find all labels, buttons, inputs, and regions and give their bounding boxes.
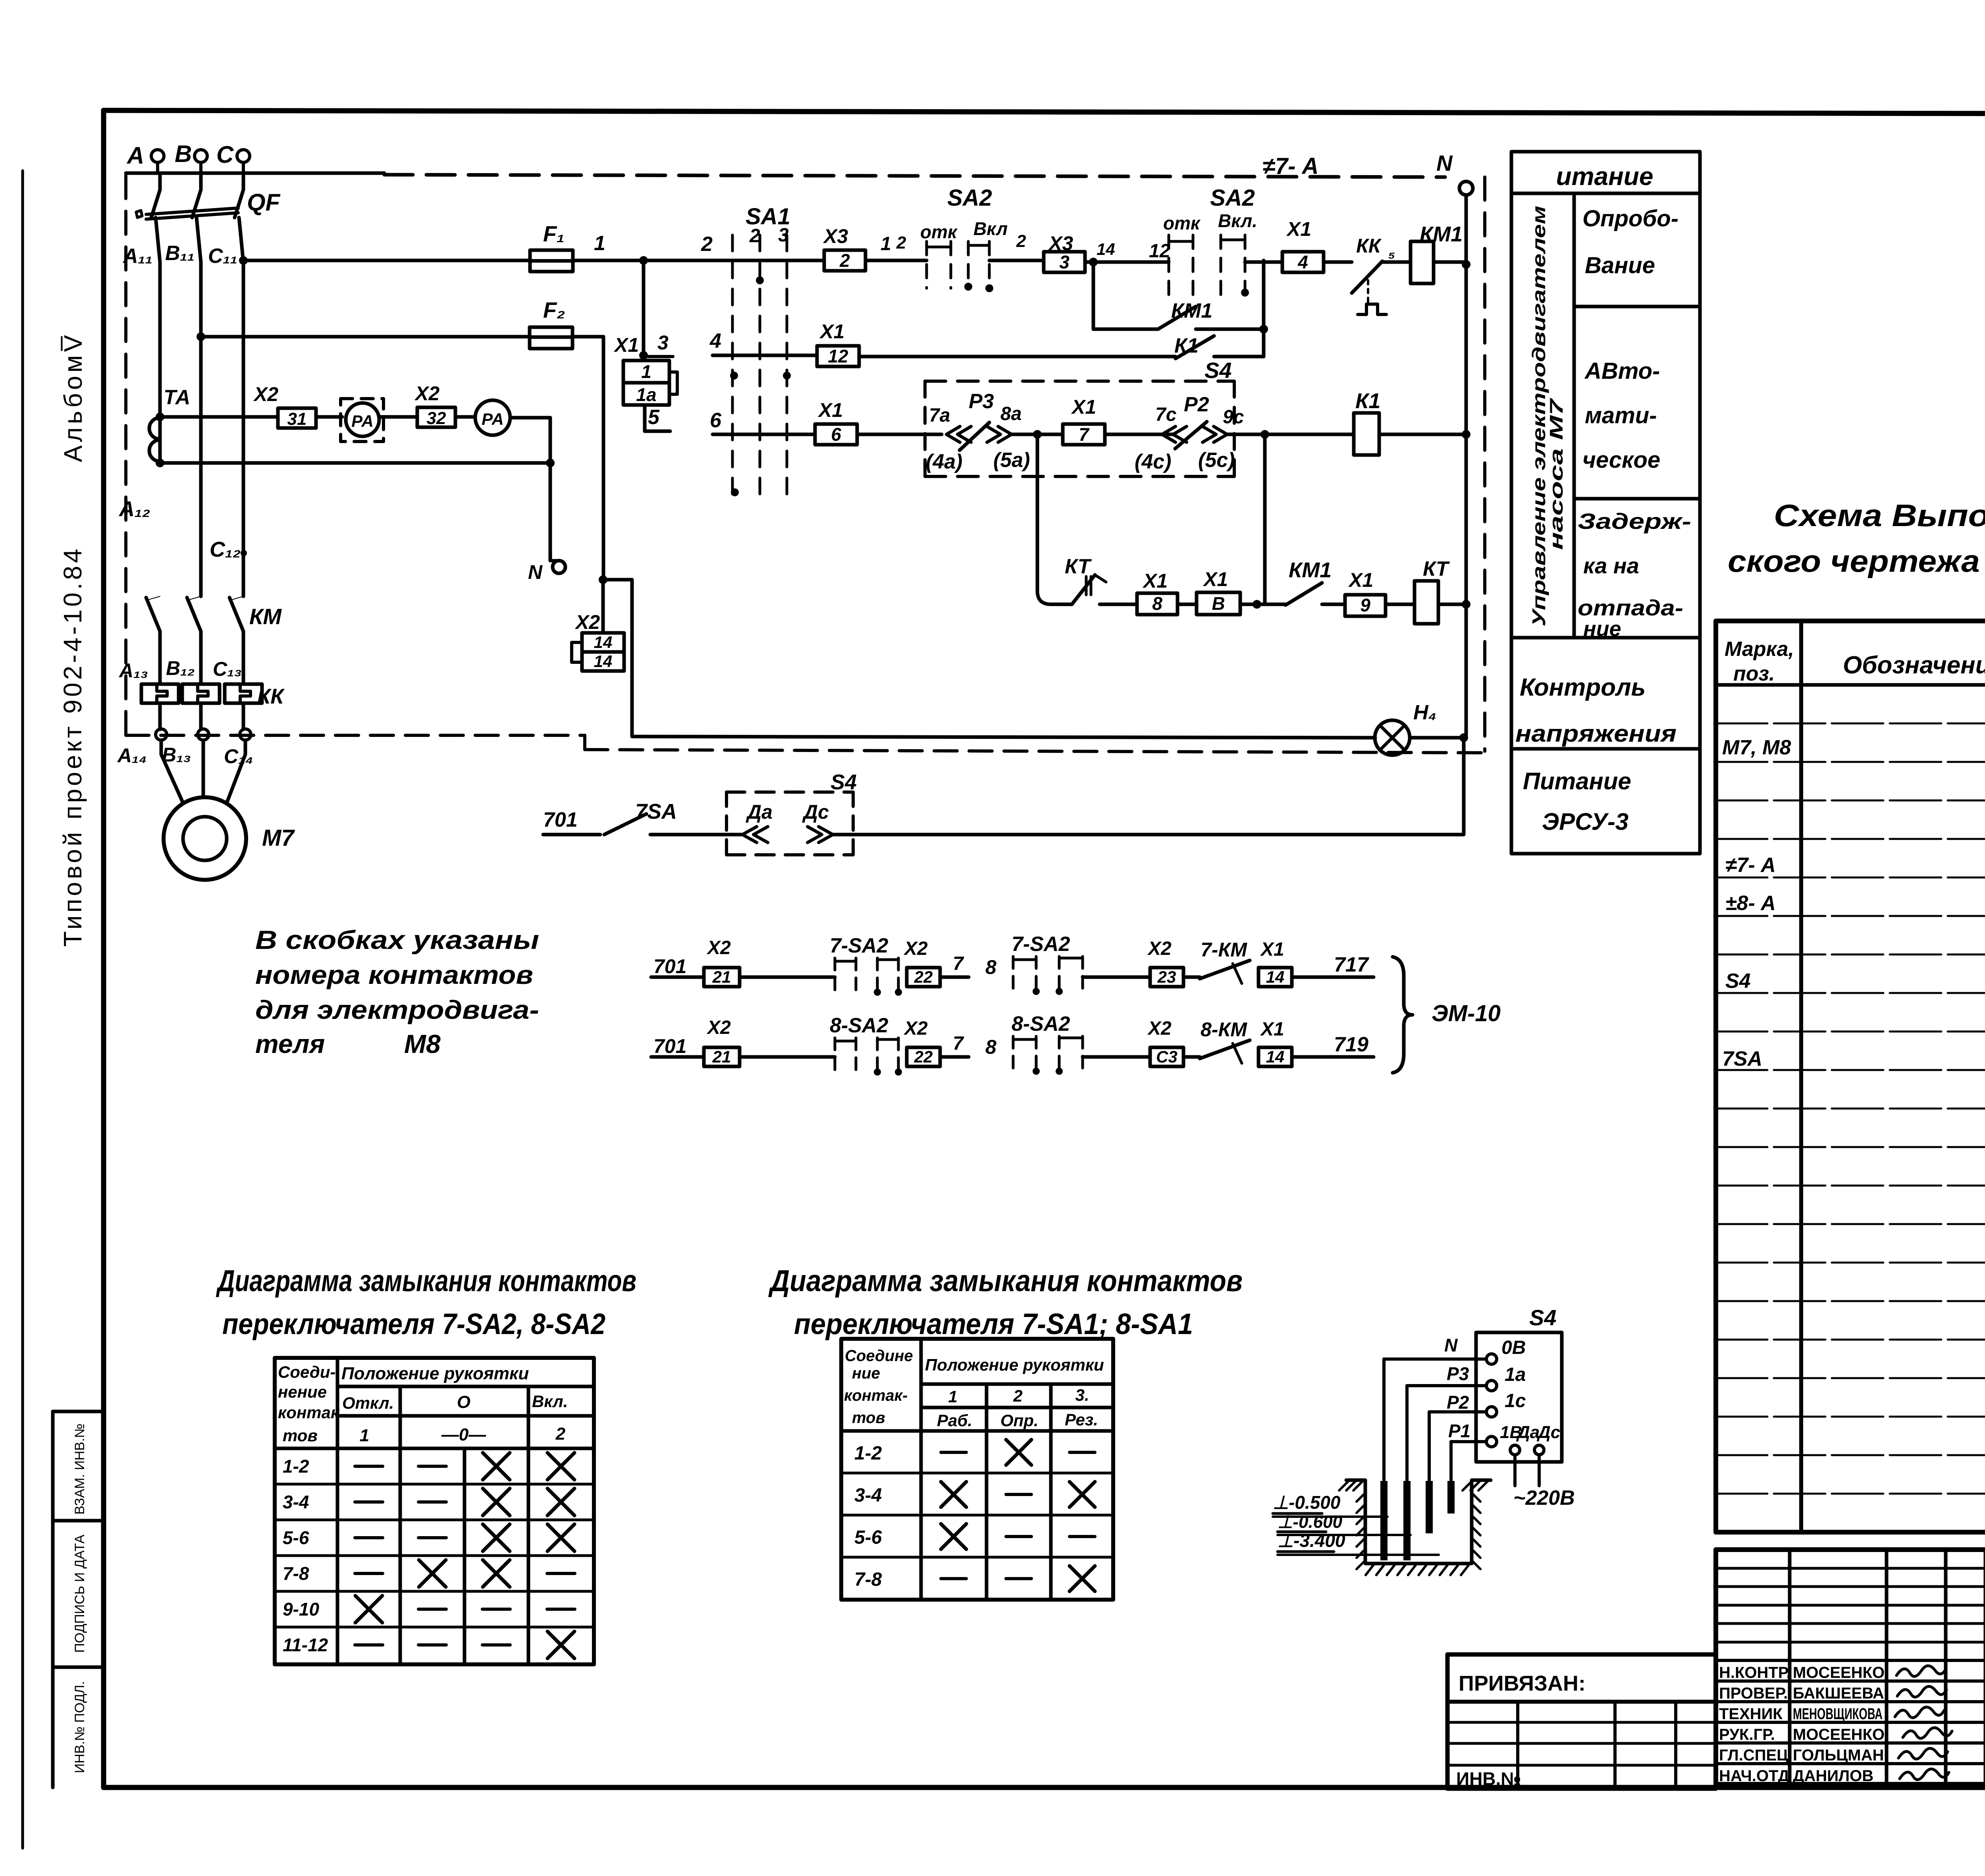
svg-text:(5с): (5с) bbox=[1198, 449, 1235, 472]
svg-text:X1: X1 bbox=[1260, 939, 1284, 960]
svg-text:переключателя 7-SA1; 8-SA1: переключателя 7-SA1; 8-SA1 bbox=[794, 1307, 1193, 1340]
function column box bbox=[1511, 152, 1700, 854]
svg-text:8-SA2: 8-SA2 bbox=[1012, 1012, 1070, 1035]
svg-text:S4: S4 bbox=[1725, 970, 1751, 993]
svg-text:1с: 1с bbox=[1505, 1390, 1526, 1411]
wire bbox=[379, 415, 417, 419]
svg-text:(4а): (4а) bbox=[926, 450, 962, 473]
wire X1:1a to 5 bbox=[643, 405, 647, 431]
svg-text:Положение рукоятки: Положение рукоятки bbox=[925, 1355, 1104, 1374]
svg-text:КМ1: КМ1 bbox=[1289, 558, 1332, 582]
svg-text:Диаграмма замыкания контактов: Диаграмма замыкания контактов bbox=[216, 1264, 636, 1298]
svg-text:4: 4 bbox=[709, 330, 721, 353]
node junction B11-F2 bbox=[197, 332, 205, 341]
svg-text:14: 14 bbox=[594, 633, 613, 652]
bus dashed to cabinet (net ±7-A) bbox=[384, 175, 1445, 177]
svg-text:ПОДПИСЬ И ДАТА: ПОДПИСЬ И ДАТА bbox=[72, 1535, 87, 1653]
wire bbox=[740, 1055, 835, 1059]
svg-text:7: 7 bbox=[953, 1033, 964, 1054]
lamp circuit wire bbox=[632, 737, 1375, 738]
svg-text:2: 2 bbox=[1013, 1386, 1022, 1405]
svg-text:теля: теля bbox=[255, 1029, 325, 1059]
svg-text:14: 14 bbox=[1266, 968, 1285, 986]
svg-text:7-8: 7-8 bbox=[283, 1563, 309, 1584]
svg-text:9: 9 bbox=[1360, 595, 1370, 615]
svg-text:1: 1 bbox=[881, 233, 891, 255]
svg-text:21: 21 bbox=[712, 968, 731, 986]
wire 7 8 bbox=[940, 1055, 969, 1059]
title block outer bbox=[1716, 1550, 1985, 1784]
svg-text:Н.КОНТР.: Н.КОНТР. bbox=[1719, 1664, 1791, 1681]
svg-text:1: 1 bbox=[594, 232, 605, 255]
svg-text:М7, М8: М7, М8 bbox=[1722, 736, 1791, 759]
svg-text:А₁₁: А₁₁ bbox=[122, 245, 152, 268]
svg-text:X2: X2 bbox=[1147, 938, 1172, 959]
wire and loop return bbox=[510, 416, 550, 420]
svg-text:РУК.ГР.: РУК.ГР. bbox=[1719, 1726, 1775, 1743]
svg-text:X2: X2 bbox=[903, 1018, 928, 1039]
svg-text:~220В: ~220В bbox=[1513, 1487, 1575, 1510]
svg-text:23: 23 bbox=[1157, 968, 1176, 986]
node after X3:3 bbox=[1089, 258, 1098, 266]
wire node1 down to X1 terminal bbox=[642, 260, 646, 361]
svg-text:X2: X2 bbox=[574, 611, 600, 633]
svg-text:А₁₃: А₁₃ bbox=[118, 659, 148, 682]
svg-text:ТА: ТА bbox=[164, 386, 190, 409]
svg-text:Питание: Питание bbox=[1523, 768, 1631, 794]
svg-text:1а: 1а bbox=[636, 384, 656, 405]
phase wire B11 bbox=[197, 218, 201, 262]
svg-text:—0—: —0— bbox=[441, 1425, 486, 1444]
svg-text:8-КМ: 8-КМ bbox=[1201, 1018, 1247, 1041]
svg-text:Вкл.: Вкл. bbox=[532, 1392, 568, 1411]
svg-text:(4с): (4с) bbox=[1135, 450, 1171, 473]
svg-text:3: 3 bbox=[1059, 252, 1070, 272]
svg-text:8а: 8а bbox=[1000, 403, 1021, 424]
svg-text:Типовой проект 902-4-10.84: Типовой проект 902-4-10.84 bbox=[58, 546, 87, 947]
svg-text:В скобках указаны: В скобках указаны bbox=[255, 925, 539, 954]
svg-text:9-10: 9-10 bbox=[283, 1599, 319, 1620]
svg-text:7а: 7а bbox=[929, 405, 950, 426]
svg-text:₅: ₅ bbox=[1388, 241, 1395, 262]
svg-text:Схема Выполнена на основании з: Схема Выполнена на основании завод- bbox=[1774, 498, 1985, 533]
svg-text:итание: итание bbox=[1556, 162, 1654, 191]
svg-text:X3: X3 bbox=[823, 225, 848, 247]
svg-text:мати-: мати- bbox=[1585, 403, 1657, 428]
svg-text:Положение рукоятки: Положение рукоятки bbox=[341, 1364, 529, 1383]
svg-text:Вкл: Вкл bbox=[973, 218, 1008, 239]
svg-text:8: 8 bbox=[985, 1036, 996, 1058]
svg-text:Р2: Р2 bbox=[1184, 393, 1209, 416]
svg-text:X2: X2 bbox=[706, 1017, 731, 1038]
svg-text:1-2: 1-2 bbox=[283, 1456, 309, 1477]
svg-text:МОСЕЕНКО: МОСЕЕНКО bbox=[1793, 1726, 1885, 1743]
svg-text:22: 22 bbox=[914, 968, 933, 986]
svg-text:7SA: 7SA bbox=[1722, 1047, 1762, 1070]
svg-text:F₂: F₂ bbox=[543, 297, 565, 322]
svg-text:9с: 9с bbox=[1223, 407, 1244, 428]
svg-text:3.: 3. bbox=[1075, 1386, 1089, 1404]
svg-text:ТЕХНИК: ТЕХНИК bbox=[1719, 1705, 1783, 1723]
specification table bbox=[1716, 621, 1985, 1532]
svg-text:Раб.: Раб. bbox=[937, 1411, 972, 1430]
cabinet right dashed border bbox=[1483, 177, 1486, 751]
svg-text:отпада-: отпада- bbox=[1578, 595, 1683, 620]
svg-text:Да: Да bbox=[1516, 1423, 1540, 1442]
svg-text:1-2: 1-2 bbox=[854, 1443, 882, 1464]
svg-text:12: 12 bbox=[828, 346, 848, 366]
svg-text:КК: КК bbox=[1356, 235, 1382, 257]
svg-text:С₁₂: С₁₂ bbox=[210, 538, 241, 561]
svg-text:5: 5 bbox=[648, 406, 660, 429]
svg-text:14: 14 bbox=[1266, 1047, 1285, 1066]
svg-text:11-12: 11-12 bbox=[283, 1635, 328, 1655]
phase wire C11 bbox=[239, 218, 243, 262]
svg-text:С₁₄: С₁₄ bbox=[224, 745, 253, 767]
svg-text:701: 701 bbox=[653, 1035, 686, 1057]
svg-text:АВто-: АВто- bbox=[1584, 358, 1660, 384]
svg-text:ского чертежа ИЖМК. 656.362.0: ского чертежа ИЖМК. 656.362.001- 20..12В… bbox=[1728, 544, 1985, 578]
svg-text:X1: X1 bbox=[1348, 569, 1373, 591]
svg-text:2: 2 bbox=[839, 250, 850, 271]
svg-text:ИНВ.№ ПОДЛ.: ИНВ.№ ПОДЛ. bbox=[72, 1681, 87, 1773]
svg-text:7: 7 bbox=[1079, 424, 1090, 445]
contactor KM main contacts bbox=[146, 596, 160, 600]
wire 7 8 bbox=[940, 976, 969, 979]
wire to fuse F1 bbox=[243, 259, 530, 262]
svg-text:Контроль: Контроль bbox=[1520, 674, 1646, 701]
diagram table 1 bbox=[275, 1358, 594, 1664]
svg-text:1а: 1а bbox=[1505, 1364, 1526, 1385]
svg-text:Р2: Р2 bbox=[1447, 1392, 1469, 1413]
ammeter PA bbox=[475, 400, 510, 435]
thermal relay KK heaters bbox=[141, 684, 179, 703]
svg-text:X1: X1 bbox=[1260, 1019, 1284, 1040]
svg-text:31: 31 bbox=[287, 409, 307, 429]
svg-text:РА: РА bbox=[482, 410, 504, 428]
cabinet left dashed border bbox=[124, 175, 127, 735]
svg-text:Опр.: Опр. bbox=[1000, 1411, 1039, 1430]
svg-text:1: 1 bbox=[360, 1426, 369, 1445]
diagram table 2 bbox=[841, 1339, 1113, 1600]
ammeter PA reserve (dashed) bbox=[341, 399, 384, 442]
svg-text:719: 719 bbox=[1334, 1033, 1368, 1056]
wire bbox=[316, 415, 342, 419]
svg-text:X2: X2 bbox=[1147, 1018, 1172, 1039]
svg-text:N: N bbox=[528, 561, 543, 583]
svg-text:7-SA2: 7-SA2 bbox=[1012, 933, 1070, 956]
svg-text:поз.: поз. bbox=[1733, 662, 1775, 685]
svg-text:К1: К1 bbox=[1355, 389, 1380, 413]
sensor terminals bbox=[1486, 1354, 1497, 1364]
svg-text:3-4: 3-4 bbox=[854, 1485, 882, 1506]
inner vertical bbox=[1573, 193, 1576, 638]
svg-text:МОСЕЕНКО: МОСЕЕНКО bbox=[1793, 1664, 1885, 1681]
ammeter loop bottom wire bbox=[160, 461, 550, 465]
svg-text:А₁₂: А₁₂ bbox=[118, 497, 150, 521]
svg-text:ПРОВЕР.: ПРОВЕР. bbox=[1719, 1685, 1788, 1702]
svg-text:32: 32 bbox=[427, 409, 446, 428]
svg-text:7-8: 7-8 bbox=[854, 1569, 882, 1590]
svg-text:В: В bbox=[1212, 593, 1225, 614]
margin label boxes bbox=[51, 1411, 55, 1787]
svg-text:X1: X1 bbox=[1071, 396, 1096, 418]
svg-text:701: 701 bbox=[543, 808, 578, 831]
svg-text:2: 2 bbox=[701, 233, 713, 256]
electrodes bbox=[1380, 1481, 1388, 1560]
svg-text:А₁₄: А₁₄ bbox=[117, 744, 147, 767]
svg-text:7SA: 7SA bbox=[635, 800, 677, 823]
svg-text:QF: QF bbox=[247, 189, 281, 216]
svg-text:Дс: Дс bbox=[1536, 1423, 1560, 1442]
svg-text:Н₄: Н₄ bbox=[1413, 701, 1436, 724]
svg-text:БАКШЕЕВА: БАКШЕЕВА bbox=[1793, 1685, 1884, 1702]
svg-text:4: 4 bbox=[1297, 252, 1308, 272]
svg-text:SA2: SA2 bbox=[1210, 185, 1255, 211]
title block left part grid bbox=[1788, 1550, 1792, 1784]
svg-text:⊥-0.600: ⊥-0.600 bbox=[1278, 1512, 1343, 1532]
svg-text:М8: М8 bbox=[404, 1029, 441, 1059]
svg-text:7-КМ: 7-КМ bbox=[1201, 939, 1247, 961]
svg-text:ВЗАМ. ИНВ.№: ВЗАМ. ИНВ.№ bbox=[72, 1423, 87, 1515]
svg-text:2: 2 bbox=[1016, 231, 1026, 251]
terminals to motor bbox=[156, 729, 167, 740]
svg-text:НАЧ.ОТД: НАЧ.ОТД bbox=[1719, 1767, 1789, 1785]
svg-text:АльбомV̅: АльбомV̅ bbox=[59, 332, 87, 462]
wire bbox=[989, 259, 1044, 262]
svg-text:22: 22 bbox=[914, 1047, 933, 1066]
svg-text:N: N bbox=[1444, 1335, 1458, 1355]
svg-text:⊥-0.500: ⊥-0.500 bbox=[1273, 1492, 1341, 1513]
header Питание bbox=[1511, 192, 1700, 195]
privyazan table bbox=[1447, 1654, 1716, 1789]
svg-text:X2: X2 bbox=[414, 382, 439, 405]
svg-text:Обозначение: Обозначение bbox=[1843, 652, 1985, 679]
svg-text:тов: тов bbox=[283, 1426, 318, 1445]
svg-text:≠7- А: ≠7- А bbox=[1262, 153, 1318, 179]
svg-text:X1: X1 bbox=[817, 399, 843, 421]
svg-text:Рез.: Рез. bbox=[1065, 1410, 1098, 1429]
svg-text:Марка,: Марка, bbox=[1725, 638, 1794, 661]
svg-text:X2: X2 bbox=[903, 938, 928, 959]
svg-text:Диаграмма замыкания контактов: Диаграмма замыкания контактов bbox=[768, 1264, 1243, 1298]
bus line solid part bbox=[126, 172, 384, 175]
svg-text:Р3: Р3 bbox=[969, 390, 994, 413]
svg-text:X1: X1 bbox=[1203, 568, 1228, 590]
svg-text:С3: С3 bbox=[1156, 1047, 1178, 1066]
svg-text:X1: X1 bbox=[1286, 218, 1311, 240]
wire down to sensor line bbox=[1462, 738, 1466, 834]
svg-text:контак-: контак- bbox=[844, 1387, 908, 1404]
phase wire A11 bbox=[156, 218, 160, 262]
svg-text:КТ: КТ bbox=[1065, 555, 1092, 578]
svg-text:ДАНИЛОВ: ДАНИЛОВ bbox=[1793, 1767, 1873, 1785]
svg-text:отк: отк bbox=[1163, 213, 1201, 233]
svg-text:8: 8 bbox=[1152, 593, 1162, 614]
svg-text:Вание: Вание bbox=[1585, 253, 1655, 278]
svg-text:Соедине: Соедине bbox=[845, 1347, 913, 1365]
svg-text:1: 1 bbox=[641, 361, 651, 382]
svg-text:напряжения: напряжения bbox=[1515, 720, 1677, 747]
motor M7 bbox=[164, 797, 246, 880]
svg-text:12: 12 bbox=[1149, 241, 1170, 262]
node 1 junction bbox=[639, 256, 648, 265]
ammeter loop top wire bbox=[156, 413, 164, 421]
svg-text:С₁₃: С₁₃ bbox=[213, 658, 242, 680]
page frame bbox=[104, 110, 1985, 114]
svg-text:Дс: Дс bbox=[802, 801, 829, 823]
wire bbox=[1083, 1055, 1150, 1059]
svg-text:РА: РА bbox=[351, 412, 374, 430]
svg-text:X1: X1 bbox=[819, 320, 844, 343]
svg-text:тов: тов bbox=[852, 1409, 885, 1427]
svg-text:О: О bbox=[457, 1392, 470, 1412]
svg-text:SA2: SA2 bbox=[947, 185, 992, 211]
svg-text:0В: 0В bbox=[1501, 1337, 1526, 1358]
wire bbox=[865, 259, 927, 262]
svg-text:М7: М7 bbox=[262, 825, 295, 851]
svg-text:3-4: 3-4 bbox=[283, 1492, 309, 1512]
node junction C11-F1 bbox=[239, 256, 248, 265]
well profile bbox=[1346, 1480, 1491, 1564]
svg-text:7: 7 bbox=[953, 953, 964, 974]
svg-text:контак: контак bbox=[278, 1403, 340, 1422]
wire bbox=[1183, 976, 1200, 979]
svg-text:N: N bbox=[1436, 150, 1453, 175]
svg-text:ка на: ка на bbox=[1583, 553, 1639, 578]
svg-text:≠7- А: ≠7- А bbox=[1725, 854, 1776, 877]
svg-text:В: В bbox=[175, 141, 192, 167]
svg-text:ГОЛЬЦМАН: ГОЛЬЦМАН bbox=[1793, 1747, 1884, 1764]
svg-text:ние: ние bbox=[852, 1365, 880, 1382]
KM1 self-hold bypass bbox=[1092, 262, 1095, 329]
svg-text:Опробо-: Опробо- bbox=[1582, 206, 1679, 231]
svg-text:С: С bbox=[216, 141, 234, 168]
svg-text:6: 6 bbox=[710, 409, 722, 432]
wire F2 branch down to control common bbox=[603, 578, 632, 582]
svg-text:С₁₁: С₁₁ bbox=[208, 245, 237, 268]
svg-text:ЭМ-10: ЭМ-10 bbox=[1432, 1001, 1501, 1026]
svg-text:В₁₂: В₁₂ bbox=[166, 657, 195, 679]
svg-text:14: 14 bbox=[594, 652, 613, 671]
svg-text:3: 3 bbox=[657, 332, 669, 354]
svg-text:±8- А: ±8- А bbox=[1725, 892, 1776, 915]
wire bbox=[1245, 260, 1282, 264]
svg-text:X2: X2 bbox=[253, 383, 278, 405]
svg-text:⊥-3.400: ⊥-3.400 bbox=[1278, 1530, 1345, 1551]
EM-10 brace bbox=[1393, 957, 1413, 1073]
svg-text:КТ: КТ bbox=[1423, 557, 1450, 580]
svg-text:7с: 7с bbox=[1155, 404, 1176, 425]
wire bbox=[740, 976, 835, 979]
svg-text:Задерж-: Задерж- bbox=[1578, 509, 1691, 534]
svg-text:Откл.: Откл. bbox=[342, 1394, 394, 1412]
wire bbox=[1324, 260, 1352, 264]
svg-text:Р1: Р1 bbox=[1448, 1421, 1470, 1441]
svg-text:МЕНОВЩИКОВА: МЕНОВЩИКОВА bbox=[1793, 1705, 1883, 1723]
wire bbox=[455, 415, 475, 419]
svg-text:Вкл.: Вкл. bbox=[1218, 210, 1257, 231]
svg-text:8: 8 bbox=[985, 956, 996, 978]
svg-text:нение: нение bbox=[278, 1382, 327, 1401]
svg-text:5-6: 5-6 bbox=[854, 1527, 882, 1548]
svg-text:Р3: Р3 bbox=[1447, 1363, 1469, 1384]
wire F2 to X2:14 bbox=[572, 335, 603, 339]
svg-text:8-SA2: 8-SA2 bbox=[830, 1014, 888, 1037]
svg-text:(5а): (5а) bbox=[993, 449, 1030, 472]
breaker QF bbox=[158, 173, 162, 190]
svg-text:В₁₁: В₁₁ bbox=[165, 242, 195, 265]
svg-text:ИНВ.№: ИНВ.№ bbox=[1456, 1768, 1521, 1789]
svg-text:21: 21 bbox=[712, 1047, 731, 1066]
svg-text:переключателя 7-SA2, 8-SA2: переключателя 7-SA2, 8-SA2 bbox=[222, 1307, 605, 1340]
svg-text:Да: Да bbox=[746, 801, 773, 823]
wire 717 bbox=[1292, 976, 1374, 979]
wire to fuse F2 bbox=[201, 335, 530, 339]
motor leads bbox=[160, 740, 163, 754]
wire bbox=[1083, 976, 1150, 979]
neutral vertical line N bbox=[1465, 195, 1468, 737]
svg-text:насоса М7: насоса М7 bbox=[1546, 397, 1567, 550]
svg-text:X1: X1 bbox=[1142, 570, 1168, 592]
svg-text:для электродвига-: для электродвига- bbox=[255, 995, 539, 1024]
svg-text:6: 6 bbox=[831, 424, 841, 445]
svg-text:отк: отк bbox=[920, 222, 958, 242]
svg-text:КМ: КМ bbox=[249, 604, 282, 629]
svg-text:S4: S4 bbox=[1204, 358, 1232, 383]
svg-text:5-6: 5-6 bbox=[283, 1527, 309, 1548]
svg-text:7-SA2: 7-SA2 bbox=[830, 934, 888, 957]
svg-text:2: 2 bbox=[896, 233, 906, 253]
wire bbox=[1183, 1055, 1200, 1059]
svg-text:ГЛ.СПЕЦ: ГЛ.СПЕЦ bbox=[1719, 1747, 1788, 1764]
vertical to timer row bbox=[1036, 434, 1039, 591]
svg-text:S4: S4 bbox=[1529, 1305, 1557, 1330]
svg-text:F₁: F₁ bbox=[543, 221, 565, 246]
svg-text:X1: X1 bbox=[613, 334, 639, 356]
wire 719 bbox=[1292, 1055, 1374, 1059]
cabinet bottom dashed border bbox=[126, 734, 585, 737]
svg-text:701: 701 bbox=[653, 955, 686, 978]
wire to K1 contact bbox=[859, 355, 1176, 359]
svg-text:X2: X2 bbox=[706, 937, 731, 958]
svg-text:1: 1 bbox=[948, 1387, 957, 1406]
wire F1 to node 1 bbox=[573, 259, 824, 262]
svg-text:номера контактов: номера контактов bbox=[255, 960, 533, 989]
svg-text:ПРИВЯЗАН:: ПРИВЯЗАН: bbox=[1459, 1672, 1586, 1695]
svg-text:14: 14 bbox=[1097, 240, 1115, 258]
svg-text:ЭРСУ-3: ЭРСУ-3 bbox=[1542, 808, 1628, 835]
svg-text:717: 717 bbox=[1334, 953, 1369, 976]
svg-text:КК: КК bbox=[257, 684, 285, 708]
svg-text:2: 2 bbox=[555, 1424, 566, 1444]
left trim line bbox=[21, 171, 24, 1848]
svg-text:А: А bbox=[126, 142, 144, 169]
svg-text:ческое: ческое bbox=[1582, 447, 1660, 473]
svg-text:Соеди-: Соеди- bbox=[278, 1363, 335, 1381]
